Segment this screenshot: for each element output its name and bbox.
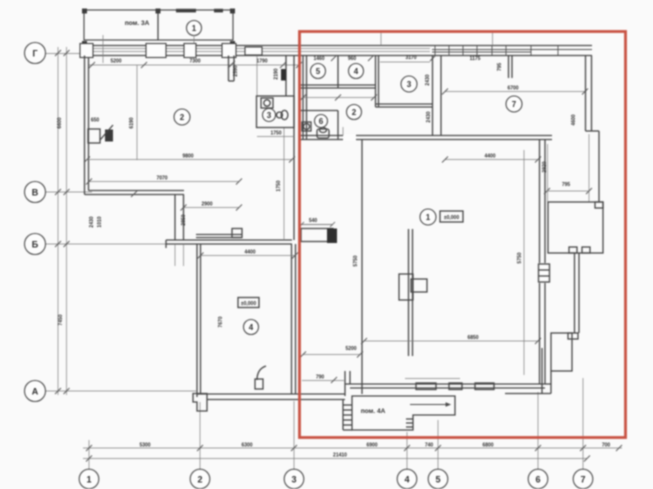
svg-text:пом. 4А: пом. 4А xyxy=(361,408,386,415)
stairs left rungs xyxy=(343,400,352,430)
svg-text:1750: 1750 xyxy=(276,180,282,191)
left dim chain line xyxy=(57,47,59,395)
door gap in wall xyxy=(343,134,356,141)
room6 sink xyxy=(302,122,311,131)
bottom dim line 1 xyxy=(83,447,622,449)
svg-text:1: 1 xyxy=(426,213,431,222)
svg-text:795: 795 xyxy=(562,182,571,188)
vent shaft dark xyxy=(281,69,286,81)
svg-text:7450: 7450 xyxy=(58,314,64,325)
shaft wall below elevator xyxy=(574,253,576,333)
svg-text:3: 3 xyxy=(267,111,272,120)
wall stub below band xyxy=(228,56,230,82)
right vertical dim line xyxy=(523,150,525,375)
right inner vertical xyxy=(588,134,590,202)
bathroom toilet xyxy=(277,110,288,119)
bottom axis circle 2 xyxy=(190,469,210,489)
svg-text:пом. 3А: пом. 3А xyxy=(125,20,150,27)
left exterior wall xyxy=(84,56,86,195)
top dim ticks xyxy=(89,55,436,68)
bathroom sink xyxy=(261,98,273,108)
svg-text:1460: 1460 xyxy=(313,56,324,62)
svg-text:3170: 3170 xyxy=(405,55,416,61)
right step vertical xyxy=(598,131,600,202)
room6 top wall xyxy=(299,110,338,112)
room1 inner wall x410 xyxy=(408,229,410,356)
svg-text:7670: 7670 xyxy=(218,316,224,327)
room 4 level box xyxy=(238,298,259,308)
svg-text:5200: 5200 xyxy=(345,346,356,352)
chain ticks xyxy=(55,50,70,394)
right wall bottom segment xyxy=(541,348,543,394)
elevator shaft xyxy=(548,202,603,253)
right step horizontal xyxy=(586,130,600,132)
room circle 4 xyxy=(244,320,259,335)
top room corner blocks xyxy=(82,9,235,47)
window frame 3 xyxy=(475,383,494,390)
axis Б leader xyxy=(45,243,170,245)
axis circle В xyxy=(25,182,46,203)
vestibule jog wall xyxy=(344,371,346,396)
top room inner divider xyxy=(157,10,159,40)
bottom axis circle 4 xyxy=(397,469,417,489)
left dim chain line 2 xyxy=(66,47,68,395)
svg-text:4: 4 xyxy=(354,67,359,76)
svg-text:Г: Г xyxy=(32,49,37,59)
svg-text:6300: 6300 xyxy=(241,443,252,449)
axis circle А xyxy=(25,381,46,402)
room3 inner dim line xyxy=(380,61,430,63)
divider wall east side xyxy=(302,56,304,141)
bottom-right corner extra line xyxy=(505,393,551,395)
elevator notch b1 xyxy=(569,247,577,253)
room3 bottom wall xyxy=(376,103,433,105)
svg-text:2: 2 xyxy=(352,108,357,117)
top wall line upper xyxy=(80,45,592,47)
elevator notch tr xyxy=(595,202,603,208)
wall tick x134 xyxy=(131,191,137,197)
svg-text:6: 6 xyxy=(319,117,324,126)
bathroom dim line xyxy=(257,136,294,138)
svg-text:6850: 6850 xyxy=(467,335,478,341)
stairs mid rungs xyxy=(406,419,413,427)
svg-text:9800: 9800 xyxy=(182,154,193,160)
wall below rooms 5,4 xyxy=(299,84,376,86)
room circle 2 xyxy=(174,109,190,125)
svg-text:2430: 2430 xyxy=(89,216,95,227)
door opening right wall xyxy=(537,263,547,283)
svg-text:960: 960 xyxy=(348,56,357,62)
small dim line rooms 5/4 xyxy=(303,97,374,99)
svg-text:4600: 4600 xyxy=(571,114,577,125)
elevator dim ticks xyxy=(544,188,592,194)
hall dim arrows xyxy=(299,222,335,227)
svg-text:6900: 6900 xyxy=(366,443,377,449)
svg-text:7070: 7070 xyxy=(156,176,167,182)
svg-text:2: 2 xyxy=(197,475,202,485)
axis circle Г xyxy=(25,43,46,64)
room1 level box xyxy=(440,211,463,222)
svg-text:5: 5 xyxy=(435,475,440,485)
bottom dim line 2 xyxy=(83,458,587,460)
bathroom walls xyxy=(257,96,295,128)
top wall glazing lines xyxy=(93,48,430,50)
top wall columns xyxy=(80,44,262,58)
bottom wall right section xyxy=(345,383,551,385)
closet detail xyxy=(88,125,113,143)
column cross rect B xyxy=(411,279,427,292)
top wall line lower xyxy=(80,55,592,57)
step dim leaders xyxy=(174,244,176,266)
svg-text:±0,000: ±0,000 xyxy=(241,301,256,307)
bottom axis leaders xyxy=(89,378,583,469)
room1 dim 4400 xyxy=(445,159,538,161)
svg-text:2920: 2920 xyxy=(542,161,548,172)
hall counter dark end xyxy=(327,229,337,244)
top room circle 1 xyxy=(187,21,202,36)
bottom wall left section xyxy=(197,393,345,395)
vertical dim leader x137 xyxy=(136,65,138,160)
room 2 bottom wall xyxy=(85,194,185,196)
room7 right wall xyxy=(585,56,587,132)
room 4 bottom-left corner block xyxy=(193,394,207,412)
svg-text:Б: Б xyxy=(32,240,39,250)
svg-text:5750: 5750 xyxy=(353,255,359,266)
room4r circle xyxy=(349,64,364,79)
axis В leader xyxy=(45,191,92,193)
svg-text:6: 6 xyxy=(535,475,540,485)
room 4 door fixture xyxy=(255,366,266,389)
svg-text:1750: 1750 xyxy=(270,131,281,137)
svg-text:2430: 2430 xyxy=(425,74,431,85)
bottom dim ticks xyxy=(86,445,622,462)
top dim line xyxy=(88,64,299,66)
dim line 2900 xyxy=(184,207,240,209)
svg-text:1790: 1790 xyxy=(256,59,267,65)
svg-text:540: 540 xyxy=(309,218,318,224)
bottom wall inner line xyxy=(405,378,460,380)
bottom axis circle 3 xyxy=(284,469,304,489)
room6 toilet xyxy=(317,128,329,139)
room2 dim line 9800 xyxy=(87,159,292,161)
hall dim 790 xyxy=(302,380,344,382)
svg-text:2850: 2850 xyxy=(181,214,187,225)
svg-text:7: 7 xyxy=(512,100,517,109)
room 4 left wall xyxy=(196,244,198,397)
step wall vertical xyxy=(174,195,176,241)
top room leader xyxy=(193,36,195,46)
bathroom room circle 3 xyxy=(263,109,276,122)
svg-text:2430: 2430 xyxy=(426,111,432,122)
thin leader right xyxy=(547,144,549,202)
room7 circle xyxy=(506,96,522,112)
axis А leader xyxy=(45,390,196,392)
svg-text:±0,000: ±0,000 xyxy=(444,215,459,221)
svg-text:5200: 5200 xyxy=(110,59,121,65)
room5 circle xyxy=(311,64,326,79)
svg-text:6600: 6600 xyxy=(57,117,63,128)
room6 right wall xyxy=(337,111,339,141)
bottom axis circle 6 xyxy=(528,469,548,489)
band window frames right section xyxy=(432,46,592,56)
room2r circle xyxy=(347,105,362,120)
bottom axis circle 5 xyxy=(428,469,448,489)
svg-text:5750: 5750 xyxy=(517,252,523,263)
stair direction arrow xyxy=(410,403,450,406)
window frame 2 xyxy=(449,383,462,390)
svg-text:2590: 2590 xyxy=(233,65,239,76)
svg-text:7300: 7300 xyxy=(189,59,200,65)
room6 circle xyxy=(315,115,328,128)
svg-text:5: 5 xyxy=(316,67,321,76)
svg-text:4: 4 xyxy=(404,475,409,485)
room2 dim line 7070 xyxy=(89,181,239,183)
svg-text:790: 790 xyxy=(316,375,325,381)
hall counter box xyxy=(301,229,333,242)
room7 dim line 6700 xyxy=(445,91,585,93)
wall left of room3 xyxy=(375,56,377,108)
svg-text:21410: 21410 xyxy=(333,453,347,459)
svg-text:1175: 1175 xyxy=(470,56,481,62)
svg-text:7: 7 xyxy=(580,475,585,485)
counter detail xyxy=(196,229,242,238)
top room outline xyxy=(84,10,233,40)
svg-text:В: В xyxy=(32,188,39,198)
right protrusion xyxy=(551,333,572,371)
room7 stub wall xyxy=(508,56,510,79)
svg-text:650: 650 xyxy=(91,118,100,124)
step wall end cap xyxy=(165,240,167,248)
big horizontal wall y135 xyxy=(299,135,552,137)
room3r circle xyxy=(401,76,417,92)
svg-text:5300: 5300 xyxy=(139,443,150,449)
wall tick at x334 xyxy=(331,377,337,383)
bottom axis circle 1 xyxy=(79,469,99,489)
svg-text:2: 2 xyxy=(180,113,185,122)
svg-text:6800: 6800 xyxy=(482,443,493,449)
svg-text:1: 1 xyxy=(86,475,91,485)
hall dim 5200 xyxy=(303,354,360,356)
window frame 1 xyxy=(416,383,436,390)
svg-text:740: 740 xyxy=(425,443,434,449)
svg-text:6190: 6190 xyxy=(129,117,135,128)
vestibule outline xyxy=(352,396,455,430)
wall between room5 and room4 xyxy=(337,56,339,89)
room1 dim 6850 xyxy=(364,340,538,342)
apartment divider wall upper xyxy=(293,56,295,241)
room 4 right wall xyxy=(291,244,293,394)
svg-text:3: 3 xyxy=(407,80,412,89)
axis circle Б xyxy=(25,234,46,255)
svg-text:4: 4 xyxy=(249,323,254,332)
svg-text:700: 700 xyxy=(602,443,611,449)
svg-text:2900: 2900 xyxy=(201,202,212,208)
door detail xyxy=(539,264,550,282)
hall partition x362 xyxy=(361,140,363,395)
leader above band x103 xyxy=(102,35,104,63)
elevator notch b2 xyxy=(582,247,590,253)
svg-text:795: 795 xyxy=(497,63,503,72)
svg-text:1010: 1010 xyxy=(97,216,103,227)
leaders above band xyxy=(380,33,382,46)
svg-text:4400: 4400 xyxy=(244,250,255,256)
right protrusion step xyxy=(568,333,578,339)
bottom axis circle 7 xyxy=(573,469,593,489)
svg-text:1: 1 xyxy=(192,24,197,33)
svg-text:4400: 4400 xyxy=(484,154,495,160)
svg-text:2190: 2190 xyxy=(274,68,280,79)
svg-text:3: 3 xyxy=(291,475,296,485)
svg-text:А: А xyxy=(32,387,39,397)
axis Г leader xyxy=(45,53,86,55)
room4 top dim 4400 xyxy=(201,255,296,257)
svg-text:6700: 6700 xyxy=(507,86,518,92)
room1 circle xyxy=(420,209,436,225)
column cross rect A xyxy=(399,274,413,300)
step wall horizontal xyxy=(166,239,292,241)
wall between room3 and room7 xyxy=(432,56,434,136)
room1 right wall xyxy=(539,140,541,385)
